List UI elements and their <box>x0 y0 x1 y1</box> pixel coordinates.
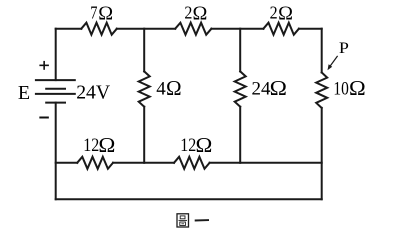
label 2Ω (top right) <box>270 3 293 25</box>
svg-text:Ω: Ω <box>98 3 113 25</box>
resistor 10Ω <box>316 73 327 108</box>
wire 12Ω to right vertical (through node at x=240) <box>210 162 322 164</box>
wire middle-left (junction to first 12Ω) <box>56 162 77 164</box>
svg-text:Ω: Ω <box>278 3 293 25</box>
wire 12Ω to 12Ω (through node at x=144) <box>113 162 174 164</box>
battery − polarity mark <box>39 117 49 119</box>
resistor 2Ω (top right) <box>263 23 299 35</box>
label 12Ω (bottom middle) <box>180 134 212 157</box>
svg-text:12: 12 <box>180 135 196 156</box>
node P pointer arrow <box>328 56 338 70</box>
wire 24Ω branch top (node to resistor) <box>239 29 241 72</box>
wire 2Ω to top-right corner <box>299 28 322 30</box>
svg-text:24V: 24V <box>76 82 111 104</box>
resistor 12Ω (bottom middle) <box>174 157 210 169</box>
label E <box>18 82 30 104</box>
caption 圖一 (Figure 1) drawn as vector strokes <box>177 214 209 227</box>
label 24Ω <box>252 76 287 100</box>
svg-text:2: 2 <box>270 3 278 23</box>
svg-text:Ω: Ω <box>98 133 115 157</box>
svg-text:Ω: Ω <box>196 134 213 157</box>
wire left vertical top (corner to battery + plate) <box>55 29 57 80</box>
resistor 2Ω (top middle) <box>175 23 211 35</box>
wire 7Ω to first 2Ω (through node at x=144) <box>117 28 175 30</box>
svg-text:Ω: Ω <box>349 77 366 100</box>
wire top-left segment (corner to 7Ω) <box>56 28 82 30</box>
resistor 4Ω <box>139 71 150 106</box>
label 2Ω (top middle) <box>184 3 207 25</box>
label 10Ω <box>333 77 365 100</box>
battery E long plate <box>36 93 75 95</box>
svg-text:7: 7 <box>90 3 97 23</box>
svg-text:E: E <box>18 82 30 104</box>
battery E long plate (top) <box>36 79 75 81</box>
wire 4Ω branch top (node to resistor) <box>143 29 145 72</box>
svg-text:P: P <box>339 39 349 57</box>
wire 4Ω branch bottom <box>143 107 145 163</box>
svg-text:Ω: Ω <box>166 76 182 100</box>
wire bottom outer <box>56 198 322 200</box>
resistor 12Ω (bottom left) <box>77 157 113 169</box>
wire right vertical bottom (10Ω to bottom wire) <box>321 108 323 199</box>
label 4Ω <box>156 76 181 100</box>
resistor 24Ω <box>235 71 246 106</box>
label 12Ω (bottom left) <box>83 133 115 157</box>
svg-text:10: 10 <box>333 78 348 99</box>
resistor 7Ω (top left) <box>81 23 117 35</box>
svg-text:4: 4 <box>156 78 166 99</box>
wire right vertical top (corner to 10Ω) <box>321 29 323 73</box>
label 24V <box>76 82 111 104</box>
svg-text:Ω: Ω <box>270 76 287 100</box>
label P <box>339 39 349 57</box>
svg-text:24: 24 <box>252 78 272 99</box>
wire 2Ω to 2Ω (through node at x=240) <box>211 28 263 30</box>
battery E short plate <box>46 88 65 90</box>
wire left vertical bottom (battery − to bottom wire) <box>55 103 57 200</box>
battery E short plate (bottom) <box>46 102 65 104</box>
svg-text:Ω: Ω <box>193 3 208 25</box>
svg-text:12: 12 <box>83 135 99 156</box>
svg-text:2: 2 <box>184 3 192 23</box>
battery + polarity mark <box>39 61 49 70</box>
wire 24Ω branch bottom <box>239 107 241 163</box>
label 7Ω <box>90 3 113 25</box>
